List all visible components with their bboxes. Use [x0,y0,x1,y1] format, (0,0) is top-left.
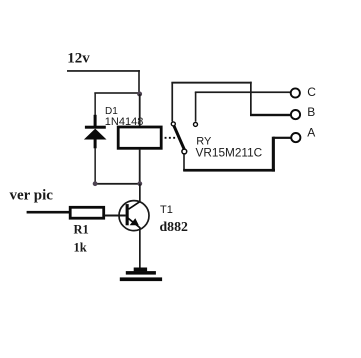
switch blade [174,126,184,150]
wire diode cathode lead thin [94,94,96,116]
transistor T1 emitter diagonal [128,218,141,228]
diode D1 triangle [84,129,107,140]
terminal A circle [291,133,300,142]
wire relay coil bottom lead [139,149,141,184]
wire emitter [139,228,141,268]
svg-text:d882: d882 [160,219,188,234]
diode D1 cathode bar [85,126,106,129]
svg-text:A: A [307,126,315,140]
wire to terminal C [195,91,290,93]
wire input to R1 [27,211,70,214]
svg-text:T1: T1 [160,204,173,216]
junction dot bottom left [93,181,98,186]
junction dot bottom right [137,181,142,186]
diode D1 anode lead thick [94,139,97,148]
switch contact circle right (to C) [194,122,198,126]
wire left contact up [171,82,173,122]
ground top bar [134,268,147,272]
transistor T1 base bar [126,204,129,225]
svg-text:12v: 12v [67,51,90,67]
wire right contact up [195,92,197,122]
wire diode anode lead thin [94,148,96,184]
wire 12v horizontal top [67,70,140,72]
svg-text:ver pic: ver pic [10,188,54,204]
ground bottom bar [120,277,162,281]
dotted actuation line [165,137,178,139]
svg-text:VR15M211C: VR15M211C [196,146,263,160]
wire collector [139,184,141,203]
wire common bottom across [183,169,275,172]
wire top across [171,82,251,84]
transistor T1 circle [119,201,149,231]
wire to terminal B [250,114,290,116]
wire down to B level [250,82,252,115]
resistor R1 box [70,207,104,218]
transistor T1 collector diagonal [129,202,141,210]
wire rail to diode top [94,92,140,94]
switch pivot circle [182,149,187,154]
svg-text:R1: R1 [74,223,89,237]
svg-text:C: C [307,85,316,99]
wire to terminal A [273,137,291,139]
terminal B circle [291,110,300,119]
wire pivot down [183,154,185,171]
svg-text:B: B [307,105,315,119]
terminal C circle [291,88,300,97]
diode D1 cathode lead thick [94,115,97,126]
wire common up to A [272,137,275,172]
ground middle bar [126,271,156,275]
svg-text:1k: 1k [74,241,87,255]
junction dot top [137,92,142,97]
relay coil RY box [118,127,161,148]
wire R1 to base [105,215,126,217]
wire 12v vertical drop [138,70,140,94]
switch contact circle left (to B) [171,122,175,126]
transistor T1 emitter arrow [130,218,139,225]
wire bottom rail diode to collector [94,183,140,185]
wire relay coil top lead [139,94,141,127]
